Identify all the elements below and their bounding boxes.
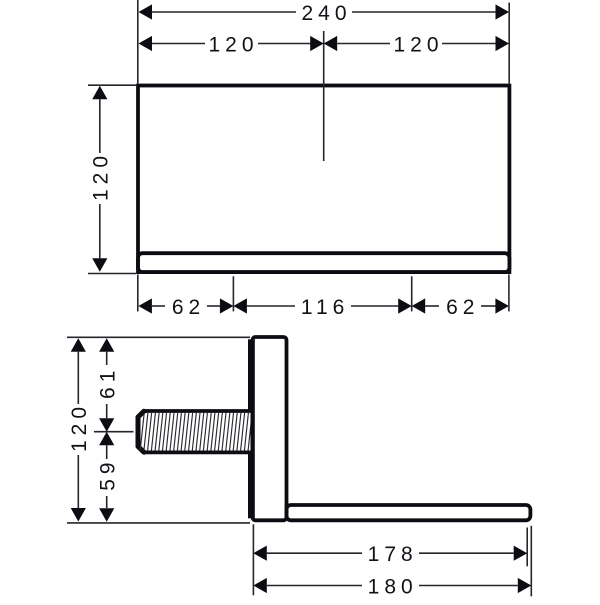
bottom extension line x=138	[137, 274, 139, 311]
center mark line	[323, 31, 325, 161]
dimension 62 right line	[425, 305, 439, 307]
svg-text:62: 62	[446, 296, 479, 319]
rod centerline tick	[94, 431, 134, 433]
svg-text:61: 61	[96, 366, 119, 399]
bottom extension line x=412	[411, 276, 413, 311]
threaded rod left end cap	[138, 411, 144, 452]
svg-text:240: 240	[301, 2, 351, 25]
height 120 extension line top	[88, 84, 136, 86]
side height dimension 120 line	[77, 352, 79, 404]
extension line left (x=138)	[137, 0, 139, 83]
dimension 120 right line	[337, 43, 390, 45]
shelf front view: main outline	[138, 86, 509, 273]
svg-text:120: 120	[90, 151, 113, 201]
svg-text:116: 116	[301, 296, 349, 319]
dimension 59 line	[106, 445, 108, 459]
dimension 240 line	[152, 11, 296, 13]
bottom-view extension line x=527	[526, 528, 528, 567]
height dimension 120 line	[99, 99, 101, 153]
height 120 extension line bottom	[88, 273, 136, 275]
dimension 116 line	[247, 305, 295, 307]
side view: wall plate back face (dark bar)	[248, 339, 255, 518]
shelf front view: bottom lip profile	[138, 253, 509, 272]
svg-text:180: 180	[368, 575, 418, 598]
svg-text:62: 62	[172, 296, 205, 319]
dimension 61 line	[106, 352, 108, 365]
dimension 120 left line	[152, 43, 205, 45]
dimension 180 line	[267, 585, 362, 587]
svg-text:120: 120	[208, 33, 258, 56]
side 120 extension line bottom	[67, 522, 250, 524]
svg-text:120: 120	[68, 402, 91, 452]
bottom extension line x=509	[508, 274, 510, 311]
bottom-view extension line x=531	[530, 526, 532, 597]
side 120 extension line top	[67, 336, 250, 338]
bottom extension line x=233	[232, 276, 234, 311]
svg-text:59: 59	[96, 457, 119, 490]
dimension 62 left line	[152, 305, 165, 307]
threaded rod outline	[138, 411, 251, 452]
svg-text:178: 178	[368, 543, 418, 566]
threaded rod hatching	[140, 413, 252, 451]
extension line right (x=509)	[508, 3, 510, 84]
side view: bottom arm	[287, 505, 531, 520]
bottom-view extension line wall plane	[252, 524, 254, 595]
svg-text:120: 120	[393, 33, 443, 56]
dimension 178 line	[267, 552, 362, 554]
side view: wall plate outline	[253, 337, 287, 520]
